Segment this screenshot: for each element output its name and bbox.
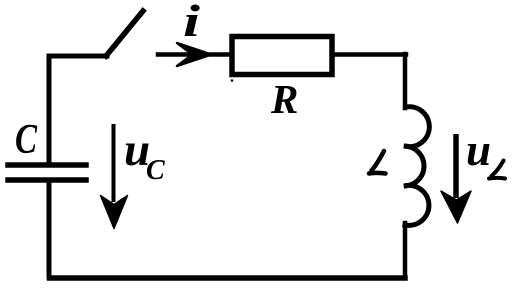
svg-text:u: u bbox=[466, 125, 491, 175]
svg-text:C: C bbox=[15, 117, 38, 163]
svg-text:C: C bbox=[146, 155, 165, 186]
svg-text:i: i bbox=[183, 0, 200, 46]
svg-text:R: R bbox=[270, 76, 298, 122]
